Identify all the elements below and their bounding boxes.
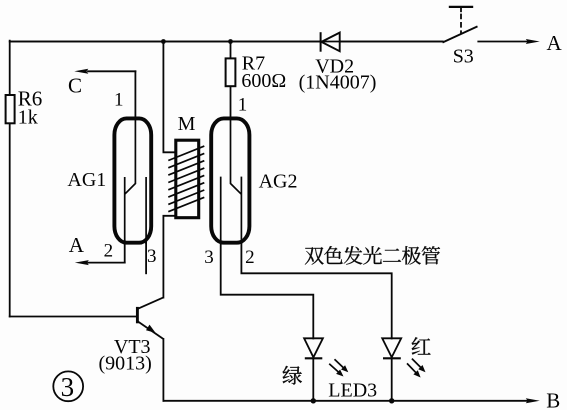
svg-text:AG2: AG2 (259, 171, 298, 193)
LED red triangle (382, 338, 401, 357)
svg-text:A: A (547, 31, 563, 55)
wire C branch horizontal (88, 70, 135, 72)
LED red emission arrow 1 (412, 359, 422, 369)
svg-text:C: C (68, 74, 82, 98)
AG2 pin 2 contact line (240, 177, 242, 244)
arrowhead A right (526, 39, 540, 44)
wire A branch horizontal (AG1 pin 2) (88, 262, 125, 264)
svg-text:3: 3 (204, 247, 214, 268)
svg-text:A: A (69, 233, 85, 257)
LED red cathode bar (383, 357, 401, 359)
AG1 pin 1 stem and contact (125, 117, 136, 194)
wire AG2 pin 3 to green LED (221, 241, 314, 339)
wire between diode and switch (10, 41, 443, 43)
wire green LED cathode (312, 358, 314, 401)
switch S3 blade (443, 26, 478, 42)
svg-text:B: B (546, 389, 560, 410)
wire AG1 pin 1 vertical (134, 71, 136, 119)
diode VD2 triangle (321, 33, 339, 52)
figure number circle 3 (53, 371, 83, 401)
resistor R6 (6, 95, 15, 123)
svg-text:AG1: AG1 (67, 169, 106, 191)
LED green emission arrow 2 (329, 364, 340, 374)
wire emitter vertical (162, 339, 164, 401)
switch S3 push actuator T-bar (449, 6, 473, 8)
svg-text:1: 1 (114, 90, 124, 111)
transistor VT3 base bar (136, 307, 139, 323)
wire coil branch from top rail (163, 42, 174, 153)
wire left vertical (R6 branch) (9, 41, 11, 317)
AG1 pin 3 contact line (145, 177, 147, 244)
svg-text:3: 3 (61, 372, 75, 402)
node junction bottom rail / red LED (389, 398, 394, 403)
svg-text:M: M (178, 113, 196, 135)
wire R7 branch from top rail (230, 42, 232, 59)
label red (412, 337, 431, 355)
wire base wire to VT3 (10, 316, 137, 318)
label dual-color LED text (305, 246, 440, 265)
wire coil bottom to collector (163, 216, 174, 298)
LED green (LED3) triangle (304, 338, 323, 357)
transistor VT3 emitter arrow (146, 325, 156, 333)
svg-text:(9013): (9013) (99, 353, 152, 375)
AG1 pin 2 contact line (124, 177, 126, 244)
arrowhead C (74, 69, 88, 74)
svg-text:2: 2 (245, 247, 255, 268)
label green (283, 366, 302, 385)
AG2 pin 1 stem and contact (231, 117, 242, 194)
wire top rail (10, 41, 443, 43)
svg-text:600Ω: 600Ω (241, 70, 286, 92)
transistor VT3 emitter (137, 321, 163, 339)
wire switch to A (478, 41, 528, 43)
diode VD2 cathode bar (320, 32, 322, 52)
LED red emission arrow 2 (407, 363, 418, 374)
svg-text:2: 2 (104, 241, 114, 262)
wire red LED cathode (391, 358, 393, 401)
svg-text:3: 3 (147, 246, 157, 267)
wire R7 to AG2 pin 1 (230, 87, 232, 120)
node junction top rail / R7 branch (228, 39, 233, 44)
wire bottom rail to B (163, 400, 528, 402)
wire AG2 pin 2 to red LED (241, 241, 391, 339)
arrowhead A left (75, 260, 89, 265)
AG2 pin 3 contact line (220, 177, 222, 244)
reed switch tube AG2 (211, 118, 249, 242)
relay coil M body (176, 140, 199, 218)
svg-text:(1N4007): (1N4007) (299, 72, 377, 94)
svg-text:1k: 1k (18, 106, 38, 128)
switch S3 actuator dashed link (460, 14, 462, 35)
svg-text:S3: S3 (453, 46, 474, 68)
transistor VT3 collector (137, 297, 163, 309)
coil M hatching (168, 146, 204, 212)
node junction bottom rail / green LED (311, 398, 316, 403)
arrowhead B (526, 398, 540, 403)
wire AG1 pin 2 vertical (124, 241, 126, 263)
svg-text:LED3: LED3 (328, 380, 377, 402)
reed switch tube AG1 (114, 118, 151, 242)
LED green emission arrow 1 (335, 359, 346, 369)
node junction top rail / coil branch (161, 39, 166, 44)
resistor R7 (226, 58, 236, 86)
LED green cathode bar (305, 357, 323, 359)
wire AG1 pin 3 stub (145, 241, 147, 273)
svg-text:1: 1 (238, 95, 248, 116)
